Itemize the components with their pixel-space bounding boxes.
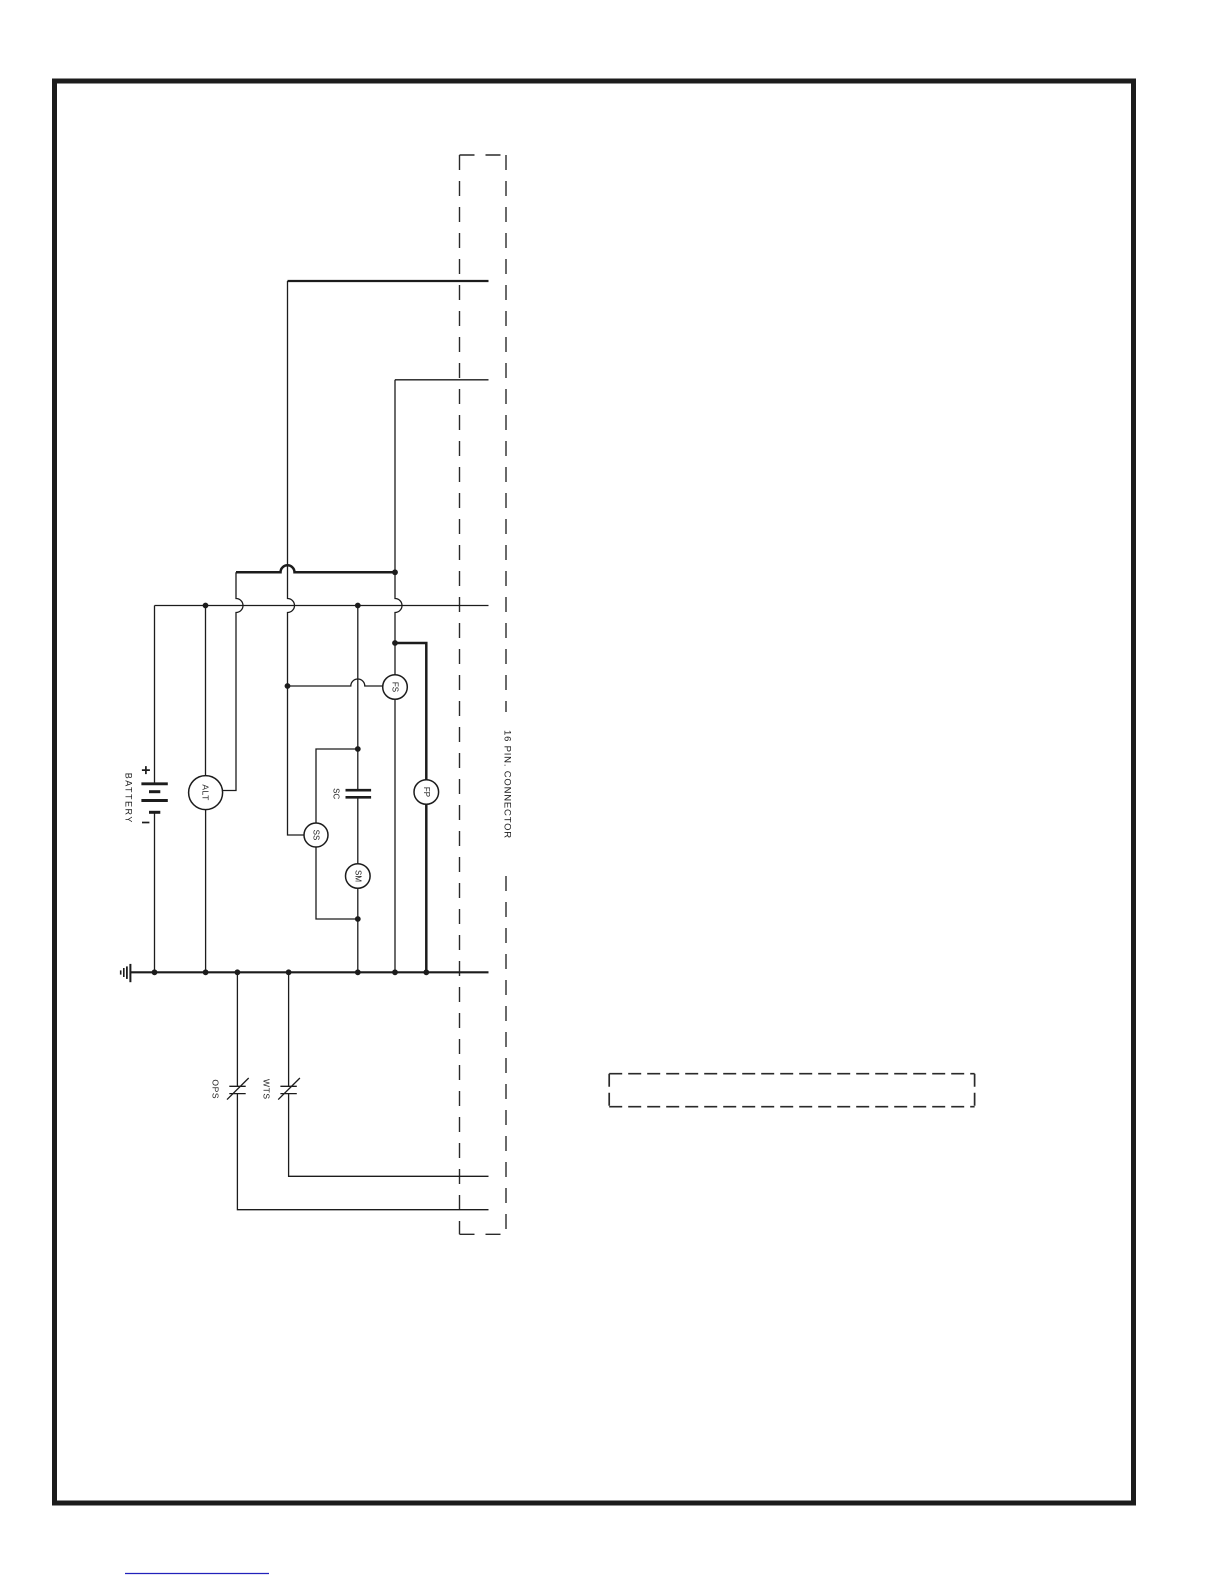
node: OPS on ground bus xyxy=(235,969,241,975)
wire: OPS lower lead to wire 35 xyxy=(237,1094,488,1210)
wire 21 (to connector pin) xyxy=(395,379,489,381)
node: ALT top on feed line xyxy=(203,603,209,609)
wire: thick switched feed line with hop over vertical xyxy=(236,565,395,572)
node: SS-SM junction xyxy=(355,916,361,922)
junction dots xyxy=(152,569,430,975)
oil pressure switch OPS xyxy=(210,1078,248,1100)
wire 96 (FS branch, with hop over SC vertical) xyxy=(288,679,383,686)
fuel pump FP xyxy=(414,780,439,805)
wire: SC top vertical xyxy=(357,606,359,791)
band bottom dashed line xyxy=(609,1106,974,1108)
node: ALT on ground bus xyxy=(203,969,209,975)
wire: battery positive feed line to connector xyxy=(155,605,489,607)
wire: OPS upper lead from ground bus xyxy=(236,972,238,1086)
node: 96 wire tap xyxy=(285,683,291,689)
start motor SM xyxy=(346,864,371,889)
wire: FP bottom thick lead to ground bus xyxy=(425,804,428,972)
svg-text:FP: FP xyxy=(422,787,431,797)
wire: ALT top lead xyxy=(205,606,207,776)
ground symbol xyxy=(121,964,131,982)
wire: battery positive lead xyxy=(154,606,156,784)
wire: SS bottom branch xyxy=(316,847,358,919)
start solenoid SS xyxy=(304,823,328,847)
wire: SS top branch to SC vertical xyxy=(316,749,358,823)
wire: SC bottom to SM xyxy=(357,797,359,864)
band left cap xyxy=(608,1074,610,1107)
16 pin connector band (right diagram, horizontal dashed) xyxy=(609,1074,974,1107)
svg-text:SS: SS xyxy=(312,830,321,841)
node: FS on ground bus xyxy=(392,969,398,975)
wire: vertical from 96 wire down to SS xyxy=(288,281,305,835)
node: FP on ground bus xyxy=(423,969,429,975)
wire 96 (top feed to connector) xyxy=(288,280,489,282)
wire: ALT bottom lead xyxy=(205,809,207,972)
16 pin connector band (left diagram, vertical dashed) xyxy=(460,155,513,1234)
node: battery on ground bus xyxy=(152,969,158,975)
svg-text:OPS: OPS xyxy=(210,1079,220,1099)
band bottom cap xyxy=(460,1233,507,1235)
band top dashed line xyxy=(609,1073,974,1075)
capacitor SC xyxy=(332,788,372,799)
svg-text:SC: SC xyxy=(332,788,341,799)
wire: FS top branch xyxy=(395,572,402,675)
footer blue line xyxy=(125,1573,269,1575)
svg-text:FS: FS xyxy=(391,682,400,692)
wire: battery negative lead to ground bus xyxy=(154,812,156,972)
ground bus xyxy=(130,971,488,973)
svg-text:SM: SM xyxy=(353,870,362,882)
band top cap xyxy=(460,154,507,156)
wire: WTS upper lead from ground bus xyxy=(288,972,290,1086)
wire: SM bottom to ground bus xyxy=(357,888,359,972)
wire: WTS lower lead to wire 30 xyxy=(289,1094,489,1177)
wire: FP thick branch (label 21) xyxy=(395,643,426,780)
page border frame xyxy=(55,81,1134,1503)
node: SS-SC junction xyxy=(355,746,361,752)
wire: 21 vertical down to thick feed line xyxy=(394,380,396,573)
left dashed line of band xyxy=(459,155,461,1234)
wire: FS bottom lead to ground bus xyxy=(394,699,396,972)
water temperature switch WTS xyxy=(261,1078,300,1100)
node: FS/FP junction xyxy=(392,640,398,646)
fuel solenoid FS xyxy=(383,675,408,700)
band right cap xyxy=(974,1074,976,1107)
svg-text:BATTERY: BATTERY xyxy=(123,773,133,824)
node: SM on ground bus xyxy=(355,969,361,975)
node: feed/21 junction xyxy=(392,569,398,575)
node: SC tap on feed line xyxy=(355,603,361,609)
battery BATTERY xyxy=(123,766,167,824)
node: WTS on ground bus xyxy=(286,969,292,975)
svg-text:ALT: ALT xyxy=(201,784,211,800)
alternator ALT xyxy=(189,776,223,810)
wire: vertical from feed line to ALT (label 21) xyxy=(223,572,244,790)
svg-text:WTS: WTS xyxy=(261,1079,271,1100)
right dashed line of band (gap for text) xyxy=(505,155,507,712)
svg-text:16 PIN. CONNECTOR: 16 PIN. CONNECTOR xyxy=(502,730,513,839)
